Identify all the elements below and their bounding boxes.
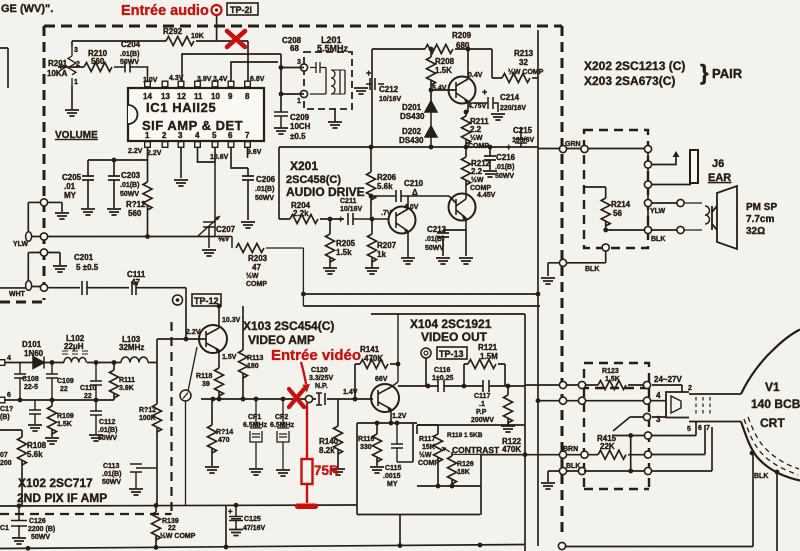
resistor R114 bbox=[205, 399, 233, 473]
svg-text:470K: 470K bbox=[502, 445, 521, 454]
wire pin6 tail bbox=[652, 425, 705, 455]
svg-text:COMP: COMP bbox=[246, 281, 267, 288]
test point TP-13 bbox=[421, 347, 467, 386]
wire supply vertical x538 bbox=[537, 30, 539, 546]
CRT bell upper bbox=[741, 330, 800, 395]
node C208b bbox=[279, 92, 284, 97]
svg-text:+: + bbox=[506, 142, 511, 152]
svg-text:47/16V: 47/16V bbox=[243, 525, 266, 532]
node C126 top bbox=[17, 503, 22, 508]
pin 4 left edge bbox=[0, 355, 11, 365]
svg-text:1.5V: 1.5V bbox=[222, 354, 237, 361]
svg-text:D101: D101 bbox=[22, 340, 42, 349]
wire CRT dag ground bbox=[566, 455, 777, 551]
svg-text:50WV: 50WV bbox=[98, 435, 117, 442]
connector circle p4 c bbox=[643, 397, 650, 404]
CRT neck bottom bbox=[689, 421, 741, 423]
svg-text:±0.5: ±0.5 bbox=[290, 132, 306, 141]
svg-text:6: 6 bbox=[698, 425, 702, 432]
CRT socket bbox=[666, 392, 689, 418]
svg-text:8: 8 bbox=[245, 92, 250, 101]
connector circle GRN b bbox=[581, 145, 588, 152]
svg-text:R?14: R?14 bbox=[216, 429, 233, 436]
capacitor C211 electrolytic series bbox=[338, 198, 389, 225]
connector circle p7 bbox=[644, 467, 651, 474]
svg-text:18K: 18K bbox=[457, 469, 470, 476]
svg-text:9: 9 bbox=[228, 92, 233, 101]
capacitor C214 electrolytic bbox=[468, 87, 526, 120]
node dag a bbox=[750, 451, 755, 456]
node C208a bbox=[279, 65, 284, 70]
svg-text:7: 7 bbox=[245, 131, 250, 140]
svg-text:.01(B): .01(B) bbox=[495, 164, 514, 171]
node C116 left bbox=[426, 384, 431, 389]
annotation 75R resistor bbox=[295, 403, 339, 509]
diode D202 bbox=[399, 112, 437, 147]
svg-text:.1: .1 bbox=[479, 401, 485, 408]
svg-text:}: } bbox=[700, 60, 709, 85]
svg-text:BLK: BLK bbox=[585, 266, 599, 273]
svg-text:1.5k: 1.5k bbox=[336, 248, 352, 257]
svg-text:X201: X201 bbox=[290, 159, 318, 173]
svg-text:R111: R111 bbox=[119, 377, 135, 384]
svg-text:+: + bbox=[482, 87, 487, 97]
node C115 top bbox=[395, 421, 400, 426]
svg-text:C216: C216 bbox=[496, 153, 516, 162]
TP-21 test point box bbox=[227, 3, 258, 15]
svg-text:2: 2 bbox=[162, 131, 167, 140]
transistor X104 bbox=[371, 314, 399, 423]
wire IF signal row bbox=[5, 362, 157, 364]
svg-text:X104 2SC1921: X104 2SC1921 bbox=[410, 317, 492, 331]
svg-text:½W: ½W bbox=[419, 451, 432, 459]
svg-text:C120: C120 bbox=[311, 367, 328, 374]
svg-text:2.2V: 2.2V bbox=[128, 148, 143, 155]
earphone jack J6 bbox=[690, 150, 731, 184]
node video b bbox=[217, 397, 222, 402]
svg-text:68: 68 bbox=[290, 44, 299, 53]
text X104 VIDEO OUT bbox=[410, 317, 492, 344]
IC1 voltage labels top bbox=[143, 75, 265, 84]
node rail a bbox=[154, 503, 159, 508]
svg-text:C211: C211 bbox=[340, 198, 356, 205]
connector circle BLKl a bbox=[559, 467, 566, 474]
wire mid bus y147 bbox=[279, 146, 538, 148]
svg-text:Δ: Δ bbox=[412, 188, 418, 197]
svg-text:32Ω: 32Ω bbox=[746, 226, 765, 237]
node IF a bbox=[50, 360, 55, 365]
svg-text:+: + bbox=[366, 68, 371, 78]
svg-text:P.P: P.P bbox=[476, 409, 487, 416]
node C216 bus bbox=[488, 145, 493, 150]
capacitor C111 series bbox=[127, 270, 186, 295]
svg-text:4.45V: 4.45V bbox=[477, 192, 496, 199]
svg-text:2.2: 2.2 bbox=[471, 167, 483, 176]
svg-text:⅙V: ⅙V bbox=[218, 235, 230, 243]
svg-text:R118: R118 bbox=[196, 373, 212, 380]
wire Q base feed bbox=[431, 89, 456, 91]
capacitor C117 bbox=[471, 380, 494, 424]
resistor R415 bbox=[597, 434, 626, 459]
node CF1 bbox=[254, 397, 259, 402]
capacitor C204 bbox=[114, 40, 148, 81]
resistor R122 bbox=[501, 386, 522, 454]
svg-text:GRN: GRN bbox=[565, 141, 581, 148]
connector circle 24V c bbox=[643, 381, 650, 388]
capacitor C108 bbox=[14, 363, 39, 401]
svg-text:.01(B): .01(B) bbox=[120, 182, 139, 189]
svg-text:C115: C115 bbox=[385, 465, 401, 472]
capacitor C212 electrolytic bbox=[354, 68, 402, 103]
svg-text:.01: .01 bbox=[64, 182, 76, 191]
svg-text:22: 22 bbox=[84, 393, 92, 400]
svg-text:07: 07 bbox=[0, 452, 8, 459]
IC1 top pin numbers bbox=[143, 92, 250, 101]
resistor R108 bbox=[0, 430, 47, 506]
node IFg c bbox=[94, 398, 99, 403]
svg-text:BLK: BLK bbox=[754, 473, 768, 480]
capacitor C215 electrolytic bbox=[506, 126, 535, 152]
svg-text:4.3V: 4.3V bbox=[169, 75, 184, 82]
svg-text:D202: D202 bbox=[402, 127, 422, 136]
svg-text:5: 5 bbox=[212, 131, 217, 140]
svg-text:2.2k: 2.2k bbox=[293, 209, 309, 218]
svg-text:50WV: 50WV bbox=[120, 59, 139, 66]
connector circle jack top bbox=[644, 145, 651, 152]
svg-text:COMP: COMP bbox=[468, 143, 489, 150]
node IF c bbox=[112, 360, 117, 365]
wire pin7 tail bbox=[584, 427, 712, 471]
ground X201 emitter bbox=[401, 258, 415, 264]
capacitor C206 bbox=[241, 168, 276, 228]
node R214 bottom bbox=[603, 228, 608, 233]
svg-text:R140: R140 bbox=[319, 437, 339, 446]
connector circle 24V b bbox=[578, 381, 585, 388]
svg-text:PAIR: PAIR bbox=[712, 66, 743, 81]
wire pin4 row bbox=[538, 400, 666, 402]
resistor R206 bbox=[367, 147, 397, 219]
svg-text:22: 22 bbox=[60, 386, 68, 393]
wire pin8 drop bbox=[247, 41, 249, 81]
resistor R126 bbox=[448, 452, 474, 486]
transistor Q audio pre bbox=[449, 66, 476, 112]
speaker PM SP bbox=[684, 186, 777, 249]
L201 ground stub bbox=[328, 109, 342, 128]
svg-text:9.6V: 9.6V bbox=[247, 149, 262, 156]
svg-text:MY: MY bbox=[64, 191, 77, 200]
diode D201 bbox=[400, 101, 437, 121]
connector circle video input bbox=[305, 395, 312, 402]
svg-text:R213: R213 bbox=[514, 49, 534, 58]
resistor R207 bbox=[365, 219, 397, 274]
connector circle BRN b bbox=[581, 451, 588, 458]
IC1 voltage labels bottom bbox=[128, 148, 262, 161]
connector circle border a bbox=[28, 199, 69, 232]
svg-text:½W: ½W bbox=[246, 272, 259, 280]
ceramic filter CF1 bbox=[243, 399, 268, 475]
annotation red X audio bbox=[227, 31, 245, 47]
svg-text:R214: R214 bbox=[611, 200, 631, 209]
svg-text:140 BCB: 140 BCB bbox=[751, 397, 800, 411]
resistor R210 bbox=[58, 49, 112, 72]
svg-text:X203 2SA673(C): X203 2SA673(C) bbox=[584, 74, 675, 88]
node p7 branch bbox=[628, 469, 633, 474]
svg-text:N.P.: N.P. bbox=[315, 383, 328, 390]
node pin4 x538 bbox=[536, 398, 541, 403]
resistor R109 bbox=[45, 400, 74, 444]
svg-text:R117: R117 bbox=[419, 436, 435, 443]
ground pin3 bbox=[174, 148, 188, 187]
svg-text:C1?: C1? bbox=[0, 406, 13, 413]
svg-text:C203: C203 bbox=[121, 171, 141, 180]
svg-text:.01(B): .01(B) bbox=[98, 427, 117, 434]
CRT bell lower dashed echo bbox=[744, 419, 798, 475]
svg-text:½W: ½W bbox=[471, 176, 484, 184]
pin 6 left edge bbox=[0, 392, 11, 403]
connector circle p4 a bbox=[559, 397, 566, 404]
svg-text:470K: 470K bbox=[364, 354, 383, 363]
svg-text:75R: 75R bbox=[314, 463, 339, 478]
wire pin12/pin9 link bbox=[182, 54, 281, 81]
text X103 VIDEO AMP bbox=[243, 319, 334, 347]
potentiometer R201 bbox=[47, 47, 80, 86]
svg-text:4.75V: 4.75V bbox=[468, 103, 487, 110]
capacitor bypass bbox=[28, 400, 42, 431]
svg-text:10.3V: 10.3V bbox=[222, 317, 241, 324]
node BRN x524 bbox=[523, 452, 528, 457]
svg-text:½W: ½W bbox=[470, 134, 483, 142]
svg-text:R113: R113 bbox=[247, 355, 263, 362]
svg-text:39: 39 bbox=[202, 381, 210, 388]
svg-text:.01(B): .01(B) bbox=[102, 471, 121, 478]
resistor R113 bbox=[239, 306, 264, 399]
node video a bbox=[211, 397, 216, 402]
svg-text:TP-12: TP-12 bbox=[194, 296, 219, 306]
svg-text:1.2V: 1.2V bbox=[392, 413, 407, 420]
chassis dashed border left bbox=[43, 26, 46, 300]
svg-text:VIDEO AMP: VIDEO AMP bbox=[248, 333, 315, 347]
node R206 mid bbox=[369, 194, 374, 199]
wire audio bottom bus y294 bbox=[303, 293, 538, 295]
svg-text:22: 22 bbox=[168, 525, 176, 532]
svg-text:2: 2 bbox=[688, 385, 692, 392]
connector circle harness bottom bbox=[602, 244, 609, 251]
video out frame bottom bbox=[417, 424, 525, 426]
svg-text:C204: C204 bbox=[121, 40, 141, 49]
text X201 AUDIO DRIVE bbox=[286, 159, 365, 199]
wire pin4-5 bbox=[198, 148, 216, 163]
resistor R208 bbox=[427, 49, 455, 101]
capacitor C126 bbox=[11, 506, 55, 544]
capacitor C112 bbox=[89, 400, 117, 442]
node R207 top bbox=[370, 217, 375, 222]
wire pin5 row bbox=[612, 422, 696, 436]
node bottom e bbox=[478, 543, 483, 548]
node contrast b bbox=[450, 484, 455, 489]
svg-text:3.3/25V: 3.3/25V bbox=[309, 375, 333, 382]
svg-text:5.4V: 5.4V bbox=[432, 85, 447, 92]
svg-text:BLK: BLK bbox=[651, 236, 665, 243]
svg-text:Entrée vidéo: Entrée vidéo bbox=[271, 347, 361, 364]
resistor R112 100K bbox=[139, 339, 162, 506]
resistor R205 bbox=[323, 219, 356, 274]
wire bottom rail y505 bbox=[0, 505, 357, 506]
connector circle I bbox=[180, 347, 197, 506]
svg-text:180: 180 bbox=[247, 363, 259, 370]
svg-text:10KA: 10KA bbox=[47, 69, 68, 78]
dashed shield horizontal y513 bbox=[0, 513, 172, 515]
svg-text:X102 2SC717: X102 2SC717 bbox=[18, 476, 93, 490]
CRT bell lower dashed echo2 bbox=[748, 417, 799, 469]
wire bottom ground rail bbox=[0, 545, 525, 549]
svg-text:C205: C205 bbox=[62, 173, 82, 182]
svg-text:10: 10 bbox=[211, 92, 220, 101]
resistor R123 bbox=[598, 368, 626, 390]
node X103 collector bbox=[217, 304, 222, 309]
node p5 branch bbox=[628, 433, 633, 438]
svg-text:IC1 HAII25: IC1 HAII25 bbox=[146, 100, 216, 115]
svg-text:BLK: BLK bbox=[566, 463, 580, 470]
svg-text:200WV: 200WV bbox=[471, 417, 494, 424]
svg-text:C116: C116 bbox=[434, 367, 450, 374]
svg-text:2200 (B): 2200 (B) bbox=[28, 526, 55, 533]
svg-text:330: 330 bbox=[360, 444, 372, 451]
capacitor C216 bbox=[483, 147, 516, 180]
text VOLUME bbox=[55, 130, 98, 141]
svg-text:32MHz: 32MHz bbox=[119, 343, 144, 352]
wire jack ring bbox=[648, 184, 691, 186]
svg-text:CONTRAST: CONTRAST bbox=[452, 445, 500, 455]
svg-text:50WV: 50WV bbox=[120, 191, 139, 198]
connector circle p3 bbox=[643, 413, 650, 420]
node bus-x303 bbox=[301, 292, 306, 297]
wire video bus y399 bbox=[201, 398, 373, 400]
resistor R121 bbox=[464, 343, 505, 386]
svg-text:X103 2SC454(C): X103 2SC454(C) bbox=[243, 319, 334, 333]
svg-text:C207: C207 bbox=[216, 225, 236, 234]
node IFg a bbox=[18, 398, 23, 403]
svg-text:CRT: CRT bbox=[760, 416, 785, 430]
svg-text:66V: 66V bbox=[375, 376, 388, 383]
wire audio supply top y49 bbox=[372, 49, 492, 147]
svg-text:BRN: BRN bbox=[563, 446, 578, 453]
node video c bbox=[241, 397, 246, 402]
svg-text:2.2: 2.2 bbox=[470, 125, 482, 134]
svg-text:2ND PIX IF AMP: 2ND PIX IF AMP bbox=[17, 491, 107, 505]
resistor R214 bbox=[585, 187, 631, 230]
svg-text:.7V: .7V bbox=[381, 210, 392, 217]
video out frame right bbox=[524, 314, 526, 551]
svg-text:3.4V: 3.4V bbox=[213, 76, 228, 83]
chassis dashed border bottom-left stub bbox=[0, 301, 45, 304]
svg-text:C210: C210 bbox=[404, 179, 424, 188]
svg-text:10K: 10K bbox=[191, 33, 204, 40]
node R206 bus bbox=[369, 145, 374, 150]
svg-text:4.0V: 4.0V bbox=[404, 204, 419, 211]
svg-text:7.7cm: 7.7cm bbox=[746, 214, 774, 225]
transistor X201 bbox=[389, 196, 416, 258]
svg-text:6: 6 bbox=[228, 131, 233, 140]
chassis dashed border right vertical bbox=[561, 26, 564, 538]
IC1 bottom pins bbox=[145, 142, 251, 148]
CRT neck dashed electrodes bbox=[696, 397, 710, 415]
node mid bus a bbox=[429, 145, 434, 150]
svg-text:C212: C212 bbox=[379, 85, 399, 94]
svg-text:3.9V: 3.9V bbox=[197, 76, 212, 83]
svg-text:EAR: EAR bbox=[708, 172, 731, 184]
node Q-collector supply bbox=[466, 47, 471, 66]
svg-text:TP-13: TP-13 bbox=[439, 349, 464, 359]
dashed connector box speaker bbox=[584, 130, 648, 248]
svg-text:1: 1 bbox=[145, 131, 150, 140]
svg-text:R203: R203 bbox=[248, 254, 268, 263]
inductor L102 bbox=[62, 334, 88, 363]
svg-text:(B): (B) bbox=[0, 414, 10, 421]
svg-text:C1: C1 bbox=[0, 525, 9, 532]
svg-text:10.6V: 10.6V bbox=[210, 154, 229, 161]
svg-text:50WV: 50WV bbox=[495, 173, 514, 180]
connector circle jack ring bbox=[644, 181, 651, 188]
node R141 base bbox=[353, 397, 358, 402]
svg-text:R126: R126 bbox=[457, 461, 474, 468]
wire pin7 drop bbox=[247, 148, 249, 159]
resistor R292 bbox=[72, 27, 248, 47]
node Q base bbox=[429, 88, 434, 93]
ground BLK bbox=[541, 278, 555, 284]
text X102 2SC717 bbox=[17, 476, 107, 505]
svg-text:3: 3 bbox=[74, 47, 78, 54]
svg-text:11: 11 bbox=[194, 92, 203, 101]
svg-text:C209: C209 bbox=[290, 113, 310, 122]
svg-text:R206: R206 bbox=[377, 173, 397, 182]
connector circle p5 bbox=[644, 432, 651, 439]
svg-text:100K: 100K bbox=[139, 415, 156, 422]
capacitor C213 bbox=[425, 225, 466, 264]
node contrast a bbox=[436, 484, 441, 489]
svg-text:C214: C214 bbox=[500, 93, 520, 102]
svg-text:R?12: R?12 bbox=[126, 200, 146, 209]
wire GRN row bbox=[538, 148, 648, 150]
svg-text:470: 470 bbox=[218, 437, 230, 444]
wire jack column bbox=[647, 149, 649, 230]
svg-text:YLW: YLW bbox=[13, 241, 29, 248]
svg-text:1.0V: 1.0V bbox=[143, 77, 158, 84]
connector circle jack tip bbox=[644, 161, 651, 168]
node bus-x538 bbox=[536, 292, 541, 297]
svg-text:47: 47 bbox=[252, 263, 261, 272]
svg-text:C108: C108 bbox=[22, 376, 39, 383]
svg-text:1: 1 bbox=[297, 98, 301, 105]
wire riser x400 bbox=[399, 515, 401, 546]
svg-text:1k: 1k bbox=[377, 250, 386, 259]
svg-text:C126: C126 bbox=[29, 518, 46, 525]
svg-text:C213: C213 bbox=[427, 225, 447, 234]
svg-text:R209: R209 bbox=[452, 31, 472, 40]
ground R201 bbox=[65, 86, 79, 116]
svg-text:2.2V: 2.2V bbox=[186, 329, 201, 336]
svg-text:MY: MY bbox=[387, 481, 398, 488]
svg-text:C201: C201 bbox=[74, 253, 94, 262]
svg-text:R116: R116 bbox=[358, 436, 374, 443]
node bottom c bbox=[224, 545, 229, 550]
connector circle dag bbox=[558, 542, 565, 549]
svg-text:VOLUME: VOLUME bbox=[55, 130, 98, 141]
node YLW row R112 bbox=[145, 234, 150, 239]
wire collector out y386 bbox=[398, 385, 525, 387]
text pins 5 6 7 bbox=[687, 425, 710, 433]
svg-text:R205: R205 bbox=[336, 239, 356, 248]
svg-text:D201: D201 bbox=[402, 103, 422, 112]
